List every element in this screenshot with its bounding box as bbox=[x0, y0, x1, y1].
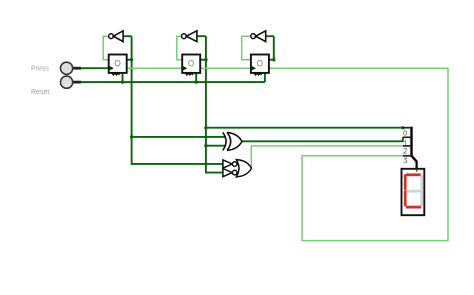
wire: U3 Qbar long loop to splitter bit3 bbox=[269, 68, 448, 240]
wire: NOT3 output loop to U3 T input bbox=[242, 36, 251, 60]
wire: XOR input 1 from U1 Q bbox=[132, 136, 226, 138]
wire: NOT3 input from vertical bbox=[266, 35, 274, 37]
wire: U3 Q vertical (to NOT3) bbox=[273, 36, 275, 60]
svg-text:Reset: Reset bbox=[31, 89, 49, 96]
wire: U1 reset drop bbox=[122, 73, 124, 82]
wire: NOT1 output loop to U1 T input bbox=[103, 36, 109, 60]
inverter NOT3 bbox=[251, 31, 266, 42]
wire: NOT1 input from vertical bbox=[123, 35, 132, 37]
wire: NOT2 input from vertical bbox=[197, 35, 206, 37]
splitter bbox=[403, 127, 417, 163]
flip-flop U1 bbox=[109, 55, 127, 75]
wire: U3 Q stub bbox=[269, 59, 274, 61]
wire: U2 Qbar to U3 clock bbox=[201, 67, 251, 69]
wire: bus from splitter to display bbox=[416, 161, 418, 169]
wire: U2 Q stub bbox=[201, 59, 206, 61]
wire: U1 Q vertical (to NOT1 and gates) bbox=[132, 36, 223, 164]
wire: NOT2 output loop to U2 T input bbox=[177, 36, 182, 60]
nor-style gate U5: OR with inverted inputs bbox=[223, 160, 252, 177]
wire: U1 Qbar to U2 clock bbox=[127, 67, 183, 69]
wire: U1 Q stub bbox=[127, 59, 132, 61]
wire: XOR output to splitter leg1 bbox=[242, 137, 403, 141]
wire: U3 reset drop bbox=[264, 73, 266, 82]
inverter NOT2 bbox=[182, 31, 197, 42]
wire: Reset bus horizontal bbox=[81, 81, 265, 83]
flip-flop U3 bbox=[251, 55, 269, 75]
inverter NOT1 bbox=[109, 31, 124, 42]
wire: NOR output up and right to splitter leg2 bbox=[251, 146, 402, 168]
xor gate U4 bbox=[223, 132, 242, 150]
flip-flop U2 bbox=[182, 55, 200, 75]
wire: Press button to U1 clock bbox=[81, 67, 109, 69]
wire: U2 reset drop bbox=[195, 73, 197, 82]
button Reset bbox=[61, 76, 81, 88]
wire: XOR input 2 from U2 Q bbox=[206, 145, 225, 147]
wire: bit0 from U2 Q vertical to splitter leg0 bbox=[206, 127, 403, 129]
svg-text:Press: Press bbox=[31, 66, 49, 73]
hex display DS1 bbox=[402, 169, 425, 215]
junction dots bbox=[121, 58, 405, 147]
button Press bbox=[61, 62, 81, 74]
wire: U2 Q vertical (to NOT2, bit0, XOR, NOR) bbox=[206, 36, 223, 172]
